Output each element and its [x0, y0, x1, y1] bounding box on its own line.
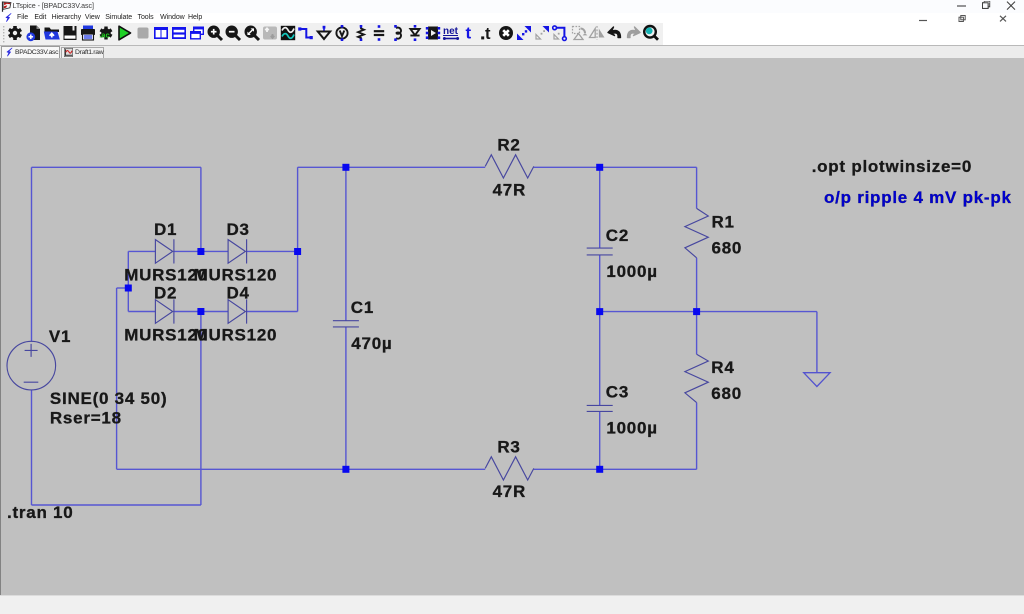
wire C1 top lead — [345, 167, 347, 320]
wire mid rail output node — [600, 311, 817, 313]
wire node to D3 anode — [201, 250, 228, 252]
svg-text:R1: R1 — [712, 213, 735, 232]
diode D2 symbol — [155, 299, 174, 323]
wire top rail left segment — [298, 166, 486, 168]
wire C3 top lead — [599, 312, 601, 406]
svg-text:C1: C1 — [351, 298, 374, 317]
svg-text:470µ: 470µ — [351, 334, 392, 353]
resistor R4 symbol — [685, 354, 708, 402]
wire D2 cathode to node — [174, 311, 201, 313]
diode D1 symbol — [155, 239, 174, 263]
wire D4 cathode to right corner — [247, 311, 298, 313]
wire R1 bottom lead — [696, 258, 698, 312]
svg-text:SINE(0 34 50): SINE(0 34 50) — [50, 389, 167, 408]
ground symbol — [804, 373, 830, 387]
resistor R2 symbol — [485, 155, 534, 178]
wire right bridge vertical to top rail — [297, 167, 299, 311]
svg-text:1000µ: 1000µ — [606, 419, 657, 438]
svg-text:V1: V1 — [49, 327, 71, 346]
wire D3 cathode to right corner — [247, 250, 298, 252]
wire D1 cathode to node — [174, 250, 201, 252]
svg-text:.tran 10: .tran 10 — [7, 503, 73, 522]
svg-text:1000µ: 1000µ — [606, 262, 657, 281]
junction mid rail at R1-R4 — [693, 308, 700, 315]
wire vertical drop to D1-D3 node — [200, 167, 202, 251]
svg-text:MURS120: MURS120 — [194, 326, 278, 345]
voltage source V1 symbol — [7, 341, 56, 390]
wire top rail right segment — [534, 166, 697, 168]
wire ground drop — [816, 312, 818, 373]
wire left drop to bottom rail — [116, 288, 118, 469]
svg-text:680: 680 — [712, 239, 743, 258]
svg-text:MURS120: MURS120 — [194, 266, 278, 285]
diode D4 symbol — [228, 299, 247, 323]
wire top-left horizontal V1+ to bridge mid — [32, 166, 201, 168]
wire drop from D2-D4 node to bottom — [200, 312, 202, 506]
wire D1 anode row — [128, 250, 155, 252]
svg-text:C2: C2 — [606, 226, 629, 245]
wire stub node A left — [117, 287, 129, 289]
svg-text:680: 680 — [711, 384, 742, 403]
svg-text:.opt plotwinsize=0: .opt plotwinsize=0 — [812, 157, 972, 176]
wire R4 bottom lead — [696, 403, 698, 470]
diode D3 symbol — [228, 239, 247, 263]
capacitor C2 symbol — [587, 248, 613, 255]
svg-text:D3: D3 — [227, 220, 250, 239]
wire V1 top lead — [31, 167, 33, 341]
svg-text:D2: D2 — [154, 284, 177, 303]
svg-text:R2: R2 — [497, 136, 520, 155]
svg-text:47R: 47R — [493, 181, 526, 200]
svg-text:o/p ripple 4 mV pk-pk: o/p ripple 4 mV pk-pk — [824, 188, 1012, 207]
wire node to D4 anode — [201, 311, 228, 313]
wire C3 bottom lead — [599, 412, 601, 470]
junction D3-D4 cathodes — [294, 248, 301, 255]
wire C2 bottom lead — [599, 255, 601, 312]
svg-text:Rser=18: Rser=18 — [50, 409, 122, 428]
wire D2 anode row — [128, 311, 155, 313]
capacitor C3 symbol — [587, 405, 613, 411]
svg-text:R4: R4 — [711, 358, 734, 377]
svg-text:D4: D4 — [227, 284, 250, 303]
junction bottom rail at C1 — [342, 466, 349, 473]
svg-text:D1: D1 — [154, 220, 177, 239]
resistor R3 symbol — [485, 457, 534, 480]
junction top rail at C2 — [596, 164, 603, 171]
wire R1 top lead — [696, 167, 698, 208]
capacitor C1 symbol — [333, 321, 359, 327]
svg-text:47R: 47R — [493, 482, 526, 501]
wire C1 bottom lead — [345, 327, 347, 469]
resistor R1 symbol — [685, 208, 708, 257]
junction node A anodes tap — [125, 285, 132, 292]
junction D2-D4 node — [197, 308, 204, 315]
wire R4 top lead — [696, 312, 698, 355]
svg-text:R3: R3 — [497, 438, 520, 457]
junction bottom rail at C3 — [596, 466, 603, 473]
wire left bridge vertical D1-D2 anodes — [127, 251, 129, 311]
wire bottom rail right segment — [534, 468, 697, 470]
wire bottom rail left segment — [117, 468, 486, 470]
junction mid rail at C2-C3 — [596, 308, 603, 315]
wire C2 top lead — [599, 167, 601, 248]
junction D1-D3 node — [197, 248, 204, 255]
junction top rail at C1 — [342, 164, 349, 171]
wire bottom horizontal to V1 minus — [32, 504, 201, 506]
wire V1 bottom lead — [31, 390, 33, 505]
dotted toolbar handle — [2, 25, 6, 43]
svg-text:C3: C3 — [606, 383, 629, 402]
